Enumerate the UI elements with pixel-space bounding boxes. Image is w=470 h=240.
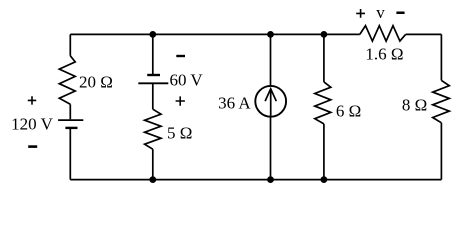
- wire right upper: [440, 34, 442, 80]
- label minus 60V: [176, 55, 185, 57]
- current source arrow head: [265, 89, 276, 101]
- svg-text:60 V: 60 V: [169, 71, 203, 90]
- node dot top branch3: [267, 31, 274, 38]
- wire bottom: [70, 179, 441, 181]
- wire top right: [406, 33, 442, 35]
- wire branch4 lower: [323, 124, 325, 180]
- wire left upper: [69, 34, 71, 55]
- wire branch3 upper: [270, 34, 272, 86]
- resistor 5 Ohm: [145, 109, 161, 149]
- wire branch2 middle: [152, 83, 154, 109]
- svg-text:6 Ω: 6 Ω: [336, 102, 361, 121]
- label minus 120V: [28, 145, 37, 148]
- resistor 6 Ohm: [315, 82, 331, 124]
- svg-text:120 V: 120 V: [11, 114, 53, 133]
- wire right lower: [440, 123, 442, 180]
- voltage source 120 V plate short: [65, 127, 77, 129]
- node dot bottom branch2: [149, 176, 156, 183]
- wire top: [70, 33, 360, 35]
- svg-text:1.6 Ω: 1.6 Ω: [365, 45, 403, 64]
- resistor 20 Ohm: [59, 56, 75, 105]
- wire branch2 lower: [152, 149, 154, 179]
- wire branch3 lower: [270, 117, 272, 180]
- voltage source 60 V plate short: [147, 74, 160, 76]
- svg-text:5 Ω: 5 Ω: [167, 124, 192, 143]
- wire left lower: [69, 128, 71, 180]
- resistor 1.6 Ohm: [360, 26, 406, 41]
- node dot bottom branch3: [267, 176, 274, 183]
- label minus v: [396, 12, 404, 15]
- label plus 120V: [28, 96, 36, 104]
- node dot top branch4: [321, 31, 328, 38]
- svg-text:8 Ω: 8 Ω: [402, 96, 427, 115]
- current source arrow stem: [270, 89, 272, 116]
- wire branch2 upper: [152, 34, 154, 74]
- label plus v: [356, 9, 365, 18]
- svg-text:36 A: 36 A: [218, 93, 251, 112]
- current source 36 A circle: [255, 86, 286, 117]
- svg-text:v: v: [376, 3, 385, 22]
- voltage source 60 V plate long: [138, 82, 168, 84]
- resistor 8 Ohm: [433, 80, 450, 122]
- node dot top branch2: [149, 31, 156, 38]
- svg-text:20 Ω: 20 Ω: [79, 72, 113, 91]
- node dot bottom branch4: [321, 176, 328, 183]
- wire left middle: [69, 104, 71, 119]
- wire branch4 upper: [323, 34, 325, 82]
- voltage source 120 V plate long: [58, 119, 83, 121]
- label plus 60V: [176, 96, 185, 105]
